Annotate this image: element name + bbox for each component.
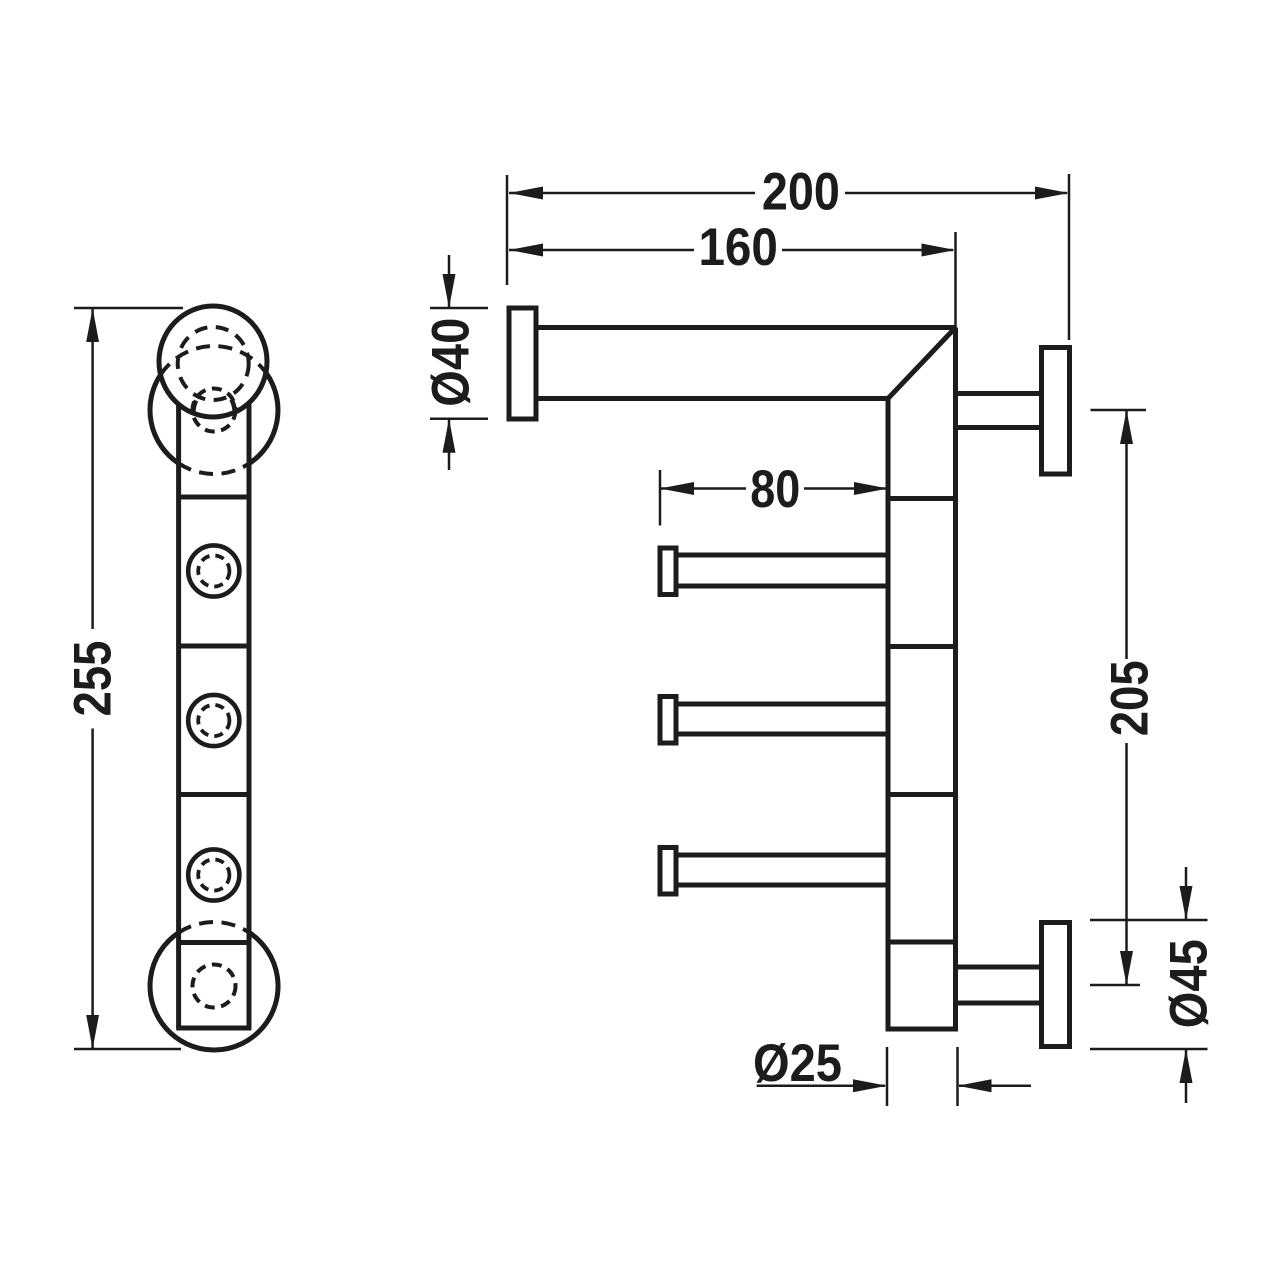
dimension 255 extension line bottom	[74, 1048, 181, 1051]
dimension D45 extension line bottom	[1090, 1048, 1208, 1051]
top rosette D45 visible arcs	[150, 373, 278, 464]
column right edge (front)	[247, 403, 252, 1029]
dimension D45 line+arrow bottom	[1185, 1049, 1188, 1103]
bend silhouette arc right	[232, 400, 235, 414]
dimension D45 line+arrow top	[1185, 867, 1188, 920]
dimension 255 arrow down	[86, 1015, 99, 1049]
column segment joint line 3 (side)	[888, 792, 956, 797]
dimension 200/160 shared left extension line	[506, 175, 509, 285]
dimension 80 line segments	[660, 487, 746, 490]
column left edge (side)	[886, 399, 891, 1030]
dimension 205 line segments	[1125, 410, 1128, 659]
top rosette (side)	[1042, 348, 1070, 475]
top arm end cap circle D40 (front view)	[159, 306, 267, 417]
dimension 80 arrow left	[660, 482, 694, 495]
dimension 80 extension line	[659, 470, 662, 526]
dimension 200 right extension line	[1068, 174, 1071, 340]
top arm end cap (side)	[509, 308, 536, 419]
top arm tube top line (side)	[536, 325, 956, 330]
svg-text:160: 160	[698, 218, 778, 277]
dimension 255 line lower segment	[91, 729, 94, 1050]
dimension 160 arrow right	[922, 244, 956, 257]
column segment joint line 2 (front)	[179, 644, 249, 649]
column bottom edge (side)	[886, 1027, 959, 1032]
hook arm 1 end cap circle (front)	[188, 545, 239, 596]
dimension 205 extension line bottom	[1090, 984, 1140, 987]
bend silhouette arc left	[193, 401, 196, 415]
dimension D40 line+arrow top	[448, 255, 451, 308]
dimension 80 arrow right	[854, 482, 888, 495]
column left edge (front)	[176, 404, 181, 1028]
column segment joint line 1 (front)	[179, 495, 249, 500]
dimension 205 arrow up	[1120, 410, 1133, 444]
column segment joint line 4 (front)	[179, 940, 249, 945]
hook arm 3 end cap circle (front)	[188, 849, 239, 900]
top rosette D45 hidden arcs (dashed)	[161, 346, 266, 474]
svg-text:Ø25: Ø25	[753, 1034, 842, 1093]
column segment joint line 2 (side)	[888, 644, 956, 649]
hook arm 3 tube hidden circle (dashed)	[198, 859, 229, 890]
top arm tube D25 hidden circle (dashed)	[178, 327, 249, 400]
dimension 255 arrow up	[86, 308, 99, 342]
hook arm 2 end cap circle (front)	[188, 695, 239, 746]
dimension 255 extension line top	[74, 307, 183, 310]
top mounting post lines (side)	[956, 391, 1042, 396]
bottom rosette D45 hidden arc (dashed)	[179, 922, 249, 933]
dimension 200 arrow right	[1035, 187, 1069, 200]
bottom rosette (side)	[1042, 923, 1070, 1047]
hook arm 1 end cap (side)	[660, 548, 676, 595]
svg-text:255: 255	[64, 641, 123, 717]
dimension 205 arrow down	[1120, 951, 1133, 985]
svg-text:80: 80	[750, 460, 800, 519]
dimension D40 extension lines	[430, 307, 488, 310]
dimension 160 right extension line	[954, 232, 957, 329]
top arm tube bottom line (side)	[536, 396, 888, 401]
hook arm 1 tube lines (side)	[676, 553, 888, 558]
hook arm 2 tube hidden circle (dashed)	[198, 705, 229, 736]
top arm bend diagonal	[888, 328, 956, 399]
dimension 205 extension line top	[1091, 409, 1147, 412]
hook arm 3 end cap (side)	[660, 848, 676, 895]
dimension D25 extension lines	[886, 1047, 889, 1106]
svg-text:200: 200	[762, 163, 840, 222]
column bottom edge (front)	[176, 1026, 251, 1031]
dimension 160 line segments	[509, 249, 694, 252]
dimension 200 arrow left	[509, 187, 543, 200]
dimension 160 arrow left	[509, 244, 543, 257]
column segment joint line 4 (side)	[888, 940, 956, 945]
bottom mounting post lines (side)	[956, 965, 1042, 970]
dimension D25 arrow right	[959, 1084, 1031, 1087]
dimension 200 line segments	[509, 192, 755, 195]
dimension D25 arrow left	[757, 1084, 885, 1087]
column segment joint line 3 (front)	[179, 792, 249, 797]
column segment joint line 1 (side)	[888, 496, 956, 501]
bottom mounting post hidden circle (dashed)	[193, 965, 236, 1008]
dimension 255 line upper segment	[91, 308, 94, 629]
hook arm 2 tube lines (side)	[676, 702, 888, 707]
column right edge (side)	[953, 328, 958, 1030]
dimension D45 extension line top	[1090, 919, 1208, 922]
svg-text:Ø40: Ø40	[422, 318, 481, 407]
hook arm 3 tube lines (side)	[676, 853, 888, 858]
svg-text:205: 205	[1100, 660, 1159, 736]
hook arm 1 tube hidden circle (dashed)	[198, 555, 229, 586]
bottom rosette D45 visible arc	[150, 932, 278, 1050]
dimension D40 line+arrow bottom	[448, 419, 451, 470]
hook arm 2 end cap (side)	[660, 697, 676, 744]
top mounting post hidden circle (dashed)	[193, 389, 236, 432]
svg-text:Ø45: Ø45	[1160, 939, 1219, 1028]
